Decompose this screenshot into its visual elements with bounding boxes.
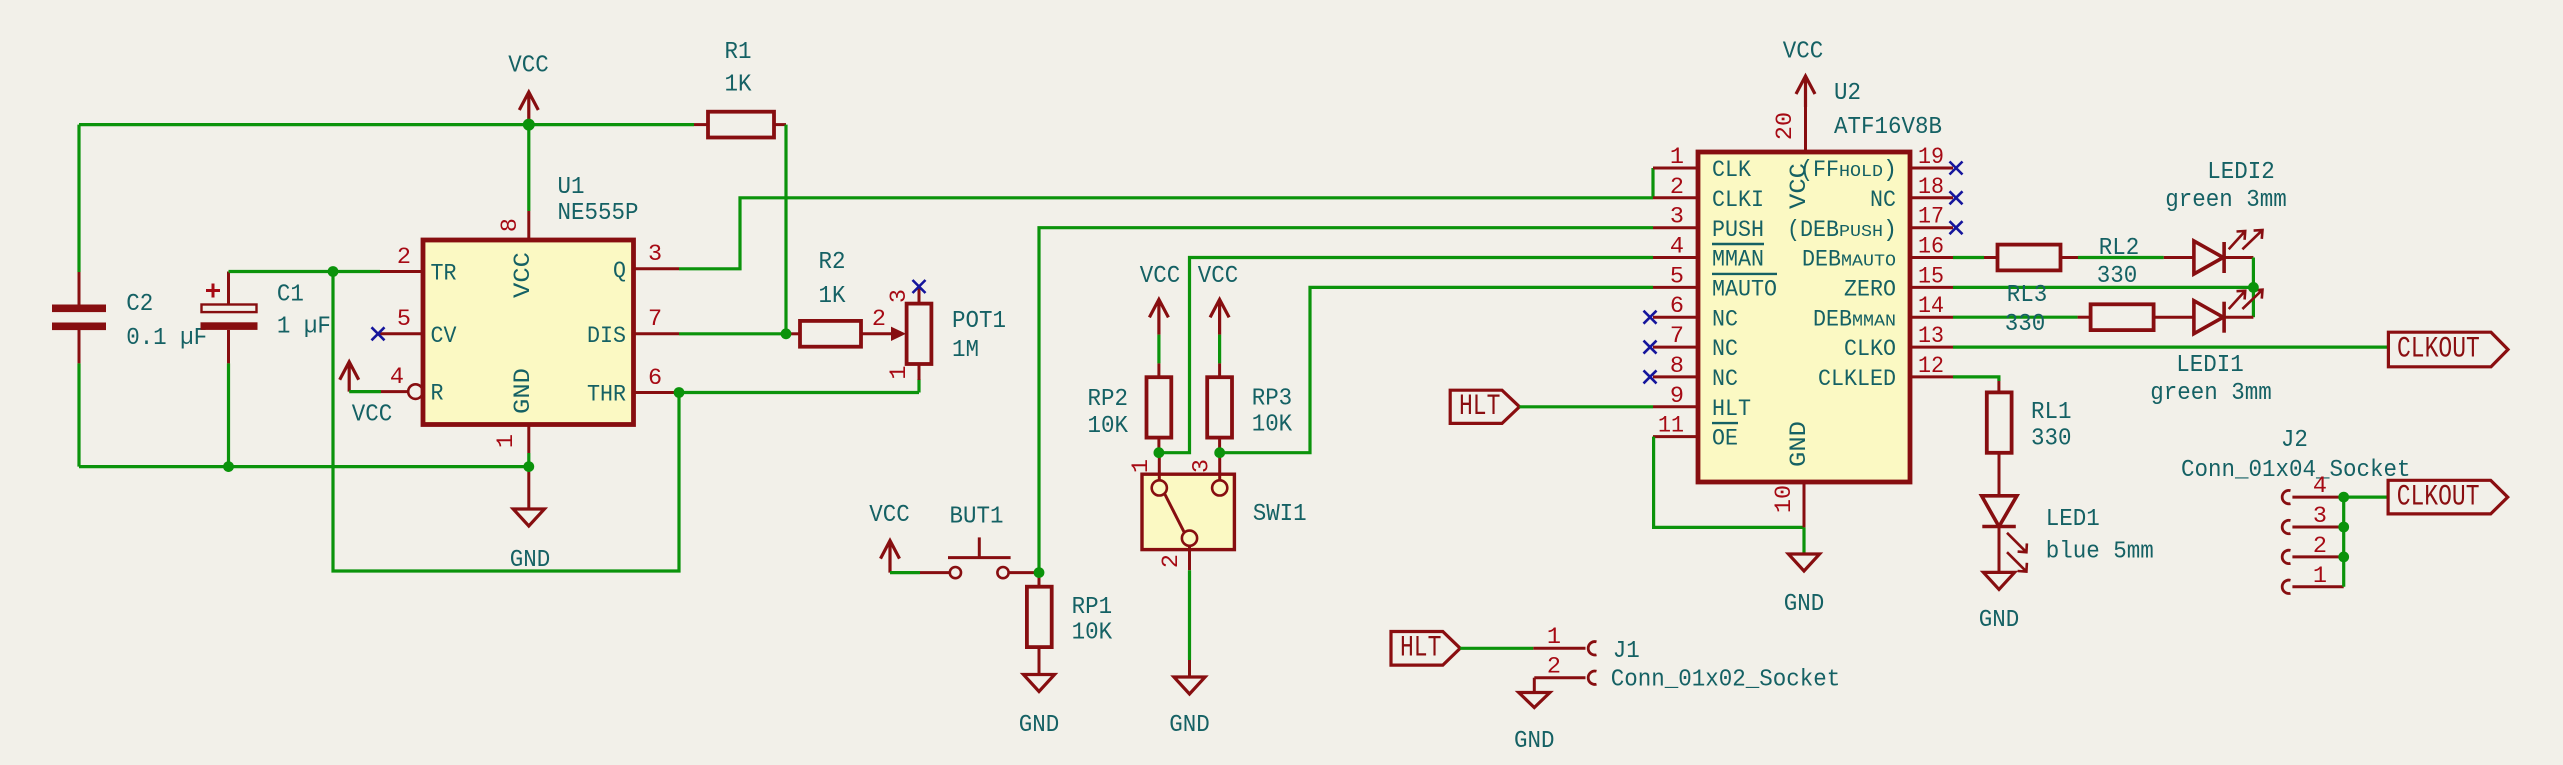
svg-text:MAUTO: MAUTO [1712, 277, 1777, 304]
resistor RL1 [1987, 392, 2012, 452]
ground below LED1 [1983, 572, 2014, 589]
power VCC above U1 [519, 92, 538, 125]
ground below J1 [1519, 693, 1550, 708]
wire VCC to pin8 [527, 125, 530, 211]
svg-text:HLT: HLT [1400, 631, 1441, 665]
junction ZERO-cathodes [2248, 282, 2259, 293]
wire VCC to pin20 [1804, 107, 1807, 152]
op-amp U1 NE555P body [423, 240, 634, 425]
pin stub RP2 bottom [1157, 438, 1160, 453]
svg-text:3: 3 [648, 241, 662, 268]
global label CLKOUT at J2 [2388, 480, 2508, 514]
resistor R2 [800, 321, 861, 347]
no-connect CV [372, 327, 385, 340]
wire TR net [229, 270, 381, 273]
wiper arrow R2 to POT1 [861, 327, 906, 341]
svg-text:CLKO: CLKO [1844, 336, 1896, 363]
pin 5 stub CV [380, 332, 423, 335]
pin stub RP1 bottom [1038, 647, 1041, 674]
svg-text:1 µF: 1 µF [277, 314, 331, 341]
svg-text:GND: GND [1169, 712, 1210, 739]
wire OE to GND net [1654, 437, 1804, 528]
wire DIS to junction [679, 332, 786, 335]
pin 3 stub POT1 top [918, 287, 921, 304]
overline for MMAN [1712, 243, 1764, 245]
power VCC at R pin [340, 362, 359, 392]
pin 16 stub U2 right [1910, 256, 1953, 259]
power VCC at RP2 [1149, 299, 1168, 334]
svg-text:7: 7 [648, 306, 662, 333]
pin stub RP3 bottom [1218, 438, 1221, 453]
svg-text:J1: J1 [1613, 638, 1640, 665]
svg-text:1: 1 [493, 434, 520, 448]
wire C2 bottom [77, 363, 80, 466]
svg-text:VCC: VCC [1140, 263, 1181, 290]
svg-text:CLK: CLK [1712, 157, 1752, 184]
svg-text:HLT: HLT [1459, 389, 1500, 423]
global label CLKOUT top [2388, 332, 2508, 367]
svg-text:12: 12 [1918, 353, 1944, 380]
pin 5 stub U2 left [1653, 286, 1698, 289]
svg-text:330: 330 [2005, 311, 2046, 338]
wire pin14 to RL3 [1953, 316, 2078, 319]
pin 8 stub U2 left [1653, 375, 1698, 378]
svg-text:VCC: VCC [508, 53, 549, 80]
junction VCC rail [523, 119, 535, 131]
svg-text:9: 9 [1670, 383, 1684, 410]
svg-text:VCC: VCC [352, 402, 393, 429]
connector J2 pin 2 [2282, 550, 2344, 563]
pin 9 stub U2 left [1653, 405, 1698, 408]
button BUT1 [920, 537, 1039, 578]
svg-text:RP2: RP2 [1088, 386, 1129, 413]
svg-text:RL3: RL3 [2007, 282, 2048, 309]
junction BUT1-RP1-PUSH [1034, 567, 1045, 578]
wire MMAN net [1159, 258, 1653, 453]
ic U2 ATF16V8B body [1698, 152, 1910, 482]
junction THR node [674, 387, 685, 398]
no-connect U2 pin 7 [1644, 341, 1657, 354]
svg-text:3: 3 [1670, 204, 1684, 231]
svg-text:15: 15 [1918, 263, 1944, 290]
svg-text:3: 3 [1189, 459, 1216, 473]
pin name DEBPUSH U2 [1787, 217, 1897, 244]
svg-text:GND: GND [1514, 728, 1555, 755]
svg-text:OE: OE [1712, 426, 1738, 453]
svg-text:2: 2 [397, 244, 411, 271]
wire pin12 to RL1 [1953, 377, 1999, 381]
pin 11 stub U2 left [1653, 435, 1698, 438]
svg-text:J2: J2 [2281, 427, 2308, 454]
power VCC at BUT1 [881, 541, 900, 573]
svg-text:10K: 10K [1088, 413, 1129, 440]
svg-text:VCC: VCC [510, 252, 537, 298]
ground below U2 [1788, 554, 1819, 571]
pin 18 stub U2 right [1910, 196, 1953, 199]
svg-text:MAUTO: MAUTO [1841, 252, 1896, 271]
pin 1 stub GND [527, 425, 530, 454]
svg-text:green 3mm: green 3mm [2165, 187, 2287, 214]
resistor RL2 [1998, 245, 2061, 271]
svg-text:RP1: RP1 [1072, 594, 1113, 621]
wire pin10 GND drop [1802, 527, 1805, 554]
svg-text:19: 19 [1918, 144, 1944, 171]
wire HLT to J1 pin1 [1460, 647, 1533, 650]
pin 1 stub POT1 bottom [918, 364, 921, 380]
svg-text:11: 11 [1658, 413, 1684, 440]
pin stub R1 right [774, 123, 786, 126]
pin 6 stub U2 left [1653, 316, 1698, 319]
junction J2 pin3 [2338, 522, 2349, 533]
pin 19 stub U2 right [1910, 167, 1953, 170]
svg-text:8: 8 [1670, 353, 1684, 380]
no-connect U2 pin 8 [1644, 370, 1657, 383]
svg-text:20: 20 [1772, 112, 1799, 140]
pin 7 stub U2 left [1653, 346, 1698, 349]
svg-text:R: R [431, 381, 444, 408]
svg-text:HLT: HLT [1712, 396, 1751, 423]
svg-text:PUSH: PUSH [1712, 217, 1764, 244]
svg-text:(DEB: (DEB [1787, 217, 1839, 244]
wire VCC to R pin [349, 390, 381, 393]
svg-text:4: 4 [1670, 234, 1684, 261]
resistor RP2 [1147, 377, 1172, 437]
svg-text:NC: NC [1870, 187, 1896, 214]
connector J2 pin 4 [2282, 490, 2344, 503]
svg-text:NC: NC [1712, 336, 1738, 363]
resistor RP1 [1027, 587, 1052, 647]
pin name DEBMAUTO U2 [1802, 247, 1896, 274]
svg-text:LEDI2: LEDI2 [2207, 159, 2275, 186]
wire VCC top rail [79, 123, 694, 126]
svg-text:R1: R1 [725, 39, 752, 66]
pin 1 stub U2 left [1653, 167, 1698, 170]
svg-text:5: 5 [1670, 263, 1684, 290]
svg-text:CLKI: CLKI [1712, 187, 1764, 214]
svg-text:ATF16V8B: ATF16V8B [1834, 114, 1942, 141]
pin 10 stub U2 [1803, 482, 1806, 527]
svg-text:): ) [1883, 217, 1897, 244]
ground below SWI1 [1174, 677, 1205, 694]
svg-text:6: 6 [648, 365, 662, 392]
svg-text:CLKLED: CLKLED [1818, 366, 1896, 393]
svg-text:HOLD: HOLD [1839, 162, 1883, 181]
connector J1 pin2 [1534, 671, 1596, 693]
svg-text:4: 4 [2313, 473, 2327, 500]
svg-text:NE555P: NE555P [558, 200, 639, 227]
wire THR to POT1 [679, 391, 919, 394]
junction DIS node [781, 328, 792, 339]
power VCC at RP3 [1210, 299, 1229, 334]
svg-text:17: 17 [1918, 204, 1944, 231]
svg-text:10: 10 [1771, 485, 1798, 513]
svg-text:RL1: RL1 [2031, 399, 2072, 426]
svg-text:PUSH: PUSH [1839, 222, 1883, 241]
svg-text:10K: 10K [1252, 412, 1293, 439]
pin 7 stub DIS [634, 332, 680, 335]
svg-text:LEDI1: LEDI1 [2176, 352, 2244, 379]
svg-text:6: 6 [1670, 293, 1684, 320]
svg-text:330: 330 [2031, 426, 2072, 453]
wire CLK-CLKI tie [1651, 168, 1654, 198]
svg-text:GND: GND [510, 547, 551, 574]
svg-text:MMAN: MMAN [1712, 247, 1764, 274]
junction RP2-SWI1-MMAN [1154, 447, 1165, 458]
svg-text:18: 18 [1918, 174, 1944, 201]
pin 4 stub R [381, 390, 408, 393]
connector J2 pin 1 [2282, 580, 2344, 593]
svg-text:VCC: VCC [1783, 39, 1824, 66]
svg-text:THR: THR [587, 382, 626, 409]
pin 17 stub U2 right [1910, 226, 1953, 229]
svg-text:RP3: RP3 [1252, 386, 1293, 413]
svg-text:green 3mm: green 3mm [2150, 380, 2272, 407]
pin stub RP3 top [1218, 363, 1221, 377]
pin stub SWI1 gnd [1188, 660, 1191, 677]
potentiometer POT1 [907, 304, 932, 364]
svg-text:C2: C2 [126, 291, 153, 318]
pin 12 stub U2 right [1910, 375, 1953, 378]
wire SWI1 to GND [1188, 570, 1191, 660]
switch SWI1 body [1142, 474, 1234, 549]
svg-text:GND: GND [1979, 607, 2020, 634]
pin 2 stub U2 left [1653, 196, 1698, 199]
overline for OE [1712, 422, 1738, 424]
svg-text:): ) [1883, 157, 1897, 184]
svg-text:DEB: DEB [1813, 306, 1852, 333]
svg-text:(FF: (FF [1800, 157, 1839, 184]
ground below RP1 [1023, 675, 1054, 692]
wire pin1 to rail [527, 453, 530, 467]
svg-text:U2: U2 [1834, 80, 1861, 107]
svg-text:blue 5mm: blue 5mm [2046, 539, 2154, 566]
svg-text:1K: 1K [725, 71, 752, 98]
pin 3 stub U2 left [1653, 226, 1698, 229]
wire LED cathodes tie [2252, 258, 2255, 318]
pin 13 stub U2 right [1910, 346, 1953, 349]
pin stub RP2 top [1157, 363, 1160, 377]
svg-text:0.1 µF: 0.1 µF [126, 325, 207, 352]
svg-text:2: 2 [1158, 554, 1185, 568]
svg-text:DEB: DEB [1802, 247, 1841, 274]
svg-text:2: 2 [1547, 654, 1561, 681]
svg-text:GND: GND [1786, 421, 1813, 467]
resistor RL3 [2091, 304, 2154, 330]
pin 4 inversion bubble [408, 384, 423, 399]
pin 2 stub TR [380, 270, 423, 273]
no-connect U2 pin 18 [1950, 191, 1963, 204]
no-connect U2 pin 6 [1644, 311, 1657, 324]
svg-text:2: 2 [2313, 533, 2327, 560]
svg-text:TR: TR [431, 261, 457, 288]
wire VCC to BUT1 [890, 571, 920, 574]
svg-text:1: 1 [1670, 144, 1684, 171]
svg-text:2: 2 [872, 306, 886, 333]
junction GND rail U1 [523, 461, 534, 472]
svg-text:16: 16 [1918, 234, 1944, 261]
pin stub RL2 right [2061, 256, 2079, 259]
pin stub RP1 top [1038, 573, 1041, 587]
svg-text:1: 1 [2313, 563, 2327, 590]
svg-text:CV: CV [431, 323, 457, 350]
capacitor C2 [52, 272, 106, 363]
svg-text:1K: 1K [819, 283, 846, 310]
wire Q to CLKI [679, 198, 1653, 269]
wire GND symbol drop [527, 467, 530, 509]
capacitor C1 polarized [201, 272, 258, 364]
junction RP3-SWI1-MAUTO [1214, 447, 1225, 458]
svg-text:ZERO: ZERO [1844, 277, 1896, 304]
svg-text:1M: 1M [952, 337, 979, 364]
wire R1 down to DIS [784, 125, 787, 334]
svg-text:5: 5 [397, 306, 411, 333]
wire GND bottom rail [79, 465, 529, 468]
wire pin13 CLKO to label [1953, 346, 2388, 349]
svg-text:U1: U1 [558, 174, 585, 201]
svg-text:Conn_01x02_Socket: Conn_01x02_Socket [1611, 667, 1841, 694]
pin 8 stub U1 [527, 211, 530, 240]
svg-text:7: 7 [1670, 323, 1684, 350]
junction J2 pin4 [2338, 492, 2349, 503]
no-connect POT1 pin3 [913, 280, 926, 293]
wire VCC to RP3 [1218, 335, 1221, 364]
pin name FFHOLD U2 [1800, 157, 1897, 184]
svg-text:4: 4 [390, 364, 404, 391]
global label HLT at J1 [1391, 632, 1460, 666]
svg-text:CLKOUT: CLKOUT [2397, 479, 2480, 513]
pin 15 stub U2 right [1910, 286, 1953, 289]
led LED1 blue [1982, 453, 2027, 573]
wire J2 bus [2344, 497, 2388, 587]
svg-text:1: 1 [886, 366, 913, 380]
svg-text:Q: Q [613, 258, 626, 285]
wire left vertical to C2 [77, 125, 80, 272]
led LEDI2 green [2164, 230, 2263, 274]
pin 6 stub THR [634, 391, 680, 394]
svg-text:GND: GND [1784, 591, 1825, 618]
power VCC above U2 [1796, 76, 1815, 107]
wire pin16 to RL2 [1953, 256, 1984, 259]
wire PUSH net [1039, 228, 1653, 573]
pin stub RL2 left [1984, 256, 1998, 259]
svg-text:8: 8 [497, 218, 524, 232]
pin stub R2 left [786, 332, 800, 335]
svg-text:VCC: VCC [869, 502, 910, 529]
led LEDI1 green [2154, 290, 2263, 334]
pin stub R1 left [694, 123, 708, 126]
wire POT1 bottom riser [917, 379, 920, 393]
overline for MAUTO [1712, 273, 1777, 275]
wire TR-THR feedback loop [333, 272, 679, 572]
svg-text:POT1: POT1 [952, 308, 1006, 335]
svg-text:NC: NC [1712, 306, 1738, 333]
svg-text:GND: GND [510, 368, 537, 414]
svg-text:MMAN: MMAN [1852, 311, 1896, 330]
pin stub RL3 left [2078, 316, 2091, 319]
junction C1-GND rail [223, 461, 234, 472]
svg-text:SWI1: SWI1 [1253, 501, 1307, 528]
wire VCC to RP2 [1157, 335, 1160, 364]
resistor R1 [708, 112, 774, 138]
pin name DEBMMAN U2 [1813, 306, 1896, 333]
wire C1 bottom [227, 363, 230, 466]
svg-text:Conn_01x04_Socket: Conn_01x04_Socket [2181, 457, 2411, 484]
svg-text:VCC: VCC [1198, 263, 1239, 290]
svg-text:1: 1 [1547, 624, 1561, 651]
svg-text:CLKOUT: CLKOUT [2397, 332, 2480, 366]
connector J1 pin1 [1533, 642, 1596, 655]
wire HLT to pin9 [1520, 405, 1654, 408]
wire pin15 ZERO [1953, 286, 2253, 289]
pin 3 stub Q [634, 267, 680, 270]
no-connect U2 pin 19 [1950, 162, 1963, 175]
svg-text:1: 1 [1128, 459, 1155, 473]
svg-text:C1: C1 [277, 282, 304, 309]
wire MAUTO net [1220, 287, 1653, 452]
junction TR node [328, 266, 339, 277]
svg-text:3: 3 [886, 289, 913, 303]
svg-text:10K: 10K [1072, 620, 1113, 647]
switch SWI1 contacts [1152, 453, 1228, 571]
svg-text:13: 13 [1918, 323, 1944, 350]
resistor RP3 [1207, 377, 1232, 437]
pin 4 stub U2 left [1653, 256, 1698, 259]
no-connect U2 pin 17 [1950, 221, 1963, 234]
svg-text:LED1: LED1 [2046, 506, 2100, 533]
junction J2 pin2 [2338, 552, 2349, 563]
svg-text:R2: R2 [819, 249, 846, 276]
svg-text:3: 3 [2313, 503, 2327, 530]
svg-text:14: 14 [1918, 293, 1944, 320]
svg-text:BUT1: BUT1 [950, 504, 1004, 531]
connector J2 pin 3 [2282, 520, 2344, 533]
pin 14 stub U2 right [1910, 316, 1953, 319]
global label HLT at pin9 [1450, 390, 1519, 423]
pin stub RL1 top [1997, 381, 2000, 393]
ground below U1 [513, 509, 544, 526]
svg-text:GND: GND [1019, 712, 1060, 739]
svg-text:2: 2 [1670, 174, 1684, 201]
svg-text:DIS: DIS [587, 323, 626, 350]
svg-text:NC: NC [1712, 366, 1738, 393]
wire RL2 to LEDI2 [2078, 256, 2164, 259]
